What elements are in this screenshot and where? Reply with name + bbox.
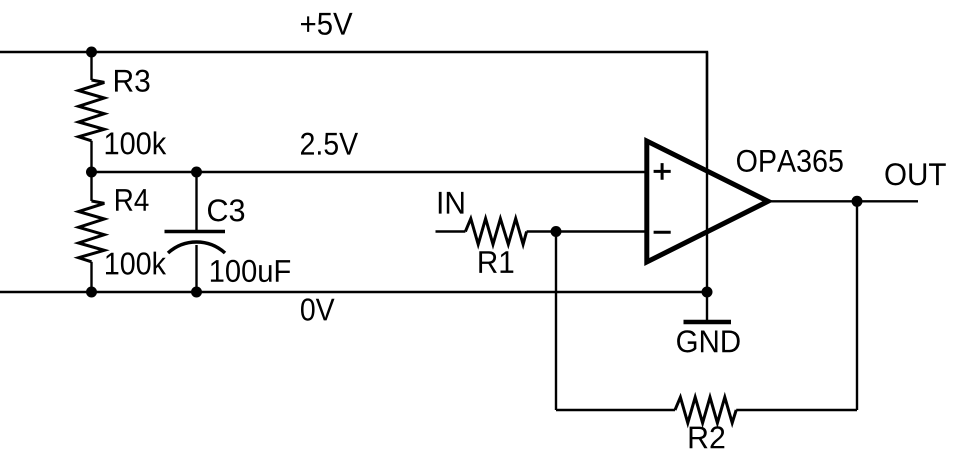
resistor R1 <box>465 219 526 245</box>
R4 label <box>116 189 148 211</box>
junction dot 2.5V C3 <box>191 167 202 178</box>
OPA365 label <box>737 150 843 172</box>
R1 label <box>479 251 513 273</box>
R2 label <box>690 426 725 448</box>
2.5V label <box>301 133 358 155</box>
wire R3 bottom lead to R4 top lead <box>90 141 92 201</box>
op-amp U1 triangle <box>647 141 768 262</box>
feedback wire left vertical <box>555 232 557 411</box>
junction dot +5V left <box>86 47 97 58</box>
GND label <box>677 330 740 352</box>
feedback wire right vertical <box>856 201 858 410</box>
C3 label <box>208 199 244 221</box>
ground bar <box>684 320 732 325</box>
resistor R4 <box>79 201 105 262</box>
junction dot 0V GND <box>702 287 713 298</box>
wire R4 bottom lead <box>90 262 92 292</box>
junction dot 0V left <box>86 287 97 298</box>
+5V rail wire <box>0 52 707 140</box>
wire left vertical R3 top lead <box>90 52 92 80</box>
wire C3 top lead <box>195 172 197 230</box>
C3 value 100uF <box>211 260 290 282</box>
feedback wire bottom right <box>736 409 857 411</box>
resistor R3 <box>79 80 105 141</box>
wire R1 to inverting input <box>527 230 647 232</box>
feedback wire bottom left <box>556 409 675 411</box>
capacitor C3 <box>165 230 226 234</box>
+5V label <box>301 13 352 35</box>
2.5V rail wire <box>92 171 647 173</box>
R3 label <box>115 70 150 92</box>
resistor R2 <box>675 397 736 423</box>
op-amp minus symbol <box>654 231 671 234</box>
op-amp plus symbol <box>654 163 671 180</box>
op-amp supply wire vertical <box>706 52 708 292</box>
0V rail wire <box>0 291 707 293</box>
junction dot 2.5V left <box>86 167 97 178</box>
R3 value 100k <box>106 131 167 154</box>
R4 value 100k <box>106 252 166 275</box>
IN label <box>439 192 464 214</box>
IN wire to R1 <box>436 230 466 232</box>
OUT wire <box>768 200 918 202</box>
OUT label <box>885 163 945 185</box>
junction dot output node <box>852 196 863 207</box>
wire C3 bottom lead <box>195 245 197 292</box>
junction dot 0V C3 <box>191 287 202 298</box>
junction dot inverting node <box>551 226 562 237</box>
0V label <box>301 298 335 320</box>
GND stub wire <box>706 292 708 322</box>
